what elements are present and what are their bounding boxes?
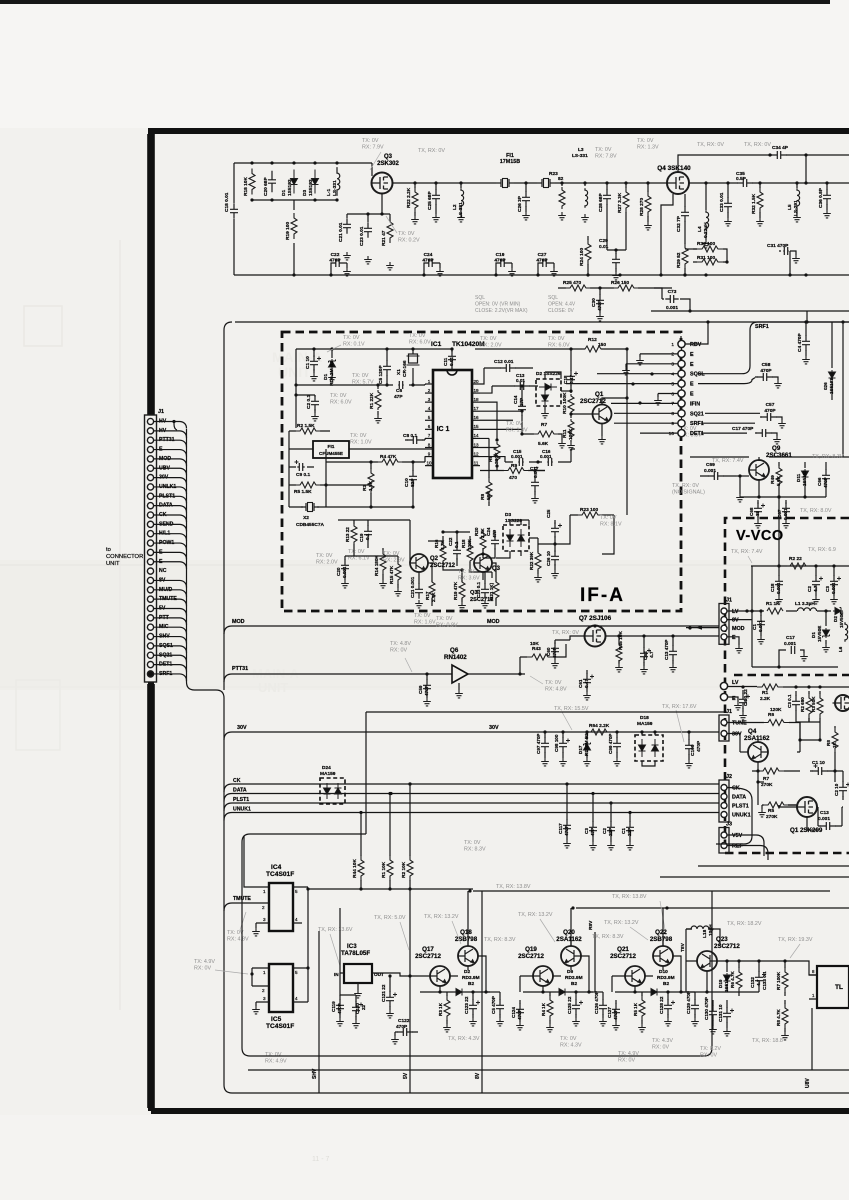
- svg-text:4: 4: [428, 406, 431, 411]
- capacitor C12 0.01: [480, 368, 533, 384]
- svg-text:TX: 0V: TX: 0V: [595, 147, 612, 153]
- wire rails btm: [319, 889, 482, 1093]
- resistor R22 2.2K: [413, 181, 416, 184]
- svg-text:TX: 0V: TX: 0V: [352, 373, 369, 379]
- capacitor C126 470P: [602, 992, 604, 1018]
- svg-text:2SA1162: 2SA1162: [744, 735, 770, 742]
- svg-text:RX: 1.0V: RX: 1.0V: [350, 439, 372, 445]
- wire CK line: [224, 784, 719, 792]
- svg-text:OPEN: 4.4V: OPEN: 4.4V: [548, 301, 576, 307]
- svg-text:TX: 0V: TX: 0V: [330, 393, 347, 399]
- svg-text:C125 22: C125 22: [567, 996, 572, 1014]
- connector J2 CK DATA PLST1 UNUK1: [719, 780, 729, 822]
- resistor R23 100 lower: [574, 514, 614, 516]
- svg-text:to: to: [106, 547, 111, 553]
- wire IC4 pin1 feed: [244, 836, 264, 887]
- svg-text:C28 68P: C28 68P: [598, 193, 604, 212]
- IC1 pin 1: [425, 383, 433, 385]
- svg-text:56K: 56K: [486, 491, 492, 500]
- capacitor C125 22: [575, 996, 577, 1018]
- wire Q4 second gate: [661, 194, 673, 275]
- svg-text:8V: 8V: [732, 618, 739, 624]
- svg-text:C9 0.1: C9 0.1: [296, 472, 310, 478]
- svg-text:14: 14: [473, 433, 479, 438]
- resistor R7 100K btm: [784, 965, 786, 996]
- svg-text:TX, RX: 7.4V: TX, RX: 7.4V: [712, 458, 744, 464]
- svg-text:TX: 0V: TX: 0V: [548, 336, 565, 342]
- wire pin1 rail: [296, 384, 425, 385]
- capacitor C130 470P: [712, 1000, 714, 1026]
- svg-text:2: 2: [428, 388, 431, 393]
- svg-text:R20: R20: [474, 527, 479, 536]
- svg-text:IC 1: IC 1: [437, 426, 450, 433]
- svg-text:TX, RX: 13.2V: TX, RX: 13.2V: [424, 914, 459, 920]
- svg-text:C133 0.1: C133 0.1: [762, 971, 767, 990]
- wire Q4 gate: [648, 182, 667, 184]
- svg-text:TX: 0V: TX: 0V: [362, 138, 379, 144]
- capacitor C5 120P: [386, 349, 388, 385]
- svg-text:J2: J2: [726, 774, 732, 780]
- terminal pin 6 E: [678, 390, 685, 397]
- svg-text:3: 3: [428, 397, 431, 402]
- svg-text:18: 18: [473, 397, 479, 402]
- svg-text:TX: 0V: TX: 0V: [600, 515, 617, 521]
- svg-text:X2: X2: [303, 515, 309, 521]
- capacitor C23 0.01: [364, 222, 372, 237]
- capacitor C68 33: [757, 500, 759, 520]
- svg-text:1K: 1K: [832, 741, 837, 748]
- capacitor C17 470P right: [755, 433, 777, 436]
- wire 30V line: [224, 732, 719, 740]
- svg-text:0.01: 0.01: [516, 378, 525, 383]
- svg-text:C8 0.1: C8 0.1: [403, 433, 417, 439]
- resistor R24 100: [587, 236, 589, 275]
- svg-text:1.5K: 1.5K: [368, 480, 374, 491]
- svg-text:15V50E: 15V50E: [839, 612, 844, 628]
- resistor R31 100: [693, 261, 727, 263]
- svg-text:IC5: IC5: [271, 1016, 282, 1023]
- transistor Q17 2SC2712: [430, 966, 450, 986]
- connector J1 pin UNLK1: [147, 484, 153, 490]
- svg-text:R7: R7: [763, 776, 769, 782]
- svg-text:C18: C18: [770, 583, 775, 592]
- wire bus 13.8 b: [571, 908, 849, 946]
- resistor R6 390K: [496, 440, 498, 466]
- svg-text:22P: 22P: [608, 828, 613, 836]
- svg-text:L-1: L-1: [326, 188, 332, 196]
- wire pin9 srf1 to caps: [701, 413, 760, 433]
- svg-text:R11: R11: [562, 429, 568, 438]
- capacitor C100 470P: [688, 732, 690, 760]
- resistor R20 2.7K lower: [482, 530, 484, 554]
- svg-text:5: 5: [428, 415, 431, 420]
- svg-text:LS-331: LS-331: [458, 202, 464, 218]
- svg-text:026: 026: [823, 382, 828, 390]
- svg-text:470P: 470P: [494, 258, 506, 264]
- svg-text:R25 470: R25 470: [563, 280, 581, 286]
- svg-text:DATA: DATA: [233, 788, 247, 794]
- svg-text:IC1: IC1: [431, 341, 442, 348]
- svg-text:R2 22: R2 22: [789, 556, 802, 562]
- connector J1 pin H/L1: [147, 531, 153, 537]
- svg-text:MA159: MA159: [320, 771, 336, 777]
- diode D3 1S5193: [312, 170, 319, 194]
- terminal pin 4 SQSL: [678, 370, 685, 377]
- svg-text:Q4: Q4: [748, 728, 757, 735]
- svg-text:TX, RX: 13.2V: TX, RX: 13.2V: [518, 912, 553, 918]
- svg-text:B2: B2: [571, 981, 577, 987]
- svg-text:C11: C11: [443, 357, 448, 366]
- svg-text:RX: 8.1V: RX: 8.1V: [600, 521, 622, 527]
- resistor R1 10K btm: [389, 794, 391, 890]
- svg-text:C21 0.01: C21 0.01: [338, 222, 344, 242]
- wire IF-A top rail: [296, 348, 627, 350]
- wire long y311: [651, 310, 849, 312]
- diode D1 1SV50E vco: [825, 611, 827, 644]
- svg-text:47P: 47P: [394, 394, 403, 400]
- svg-text:L4: L4: [697, 226, 703, 232]
- svg-text:RX: 0V: RX: 0V: [618, 1057, 635, 1063]
- svg-text:TX: 0V: TX: 0V: [637, 138, 654, 144]
- transistor FET right edge vco: [833, 695, 849, 711]
- IC1 pin 8: [425, 446, 433, 448]
- svg-text:TX, RX: 0V: TX, RX: 0V: [418, 148, 445, 154]
- svg-text:SQ21: SQ21: [690, 411, 704, 417]
- IC1 pin 18: [472, 401, 480, 403]
- svg-text:5V: 5V: [403, 1072, 409, 1079]
- svg-text:RX: 0.1V: RX: 0.1V: [343, 341, 365, 347]
- svg-text:OPEN: 0V (VR MIN): OPEN: 0V (VR MIN): [475, 301, 521, 307]
- svg-text:20: 20: [473, 379, 479, 384]
- svg-text:R64 2.2K: R64 2.2K: [589, 723, 610, 729]
- svg-text:RX: 3.6V: RX: 3.6V: [458, 575, 480, 581]
- svg-text:D17: D17: [578, 745, 583, 754]
- svg-text:C61: C61: [578, 679, 583, 688]
- capacitor C4 0.22 lower vco: [742, 690, 744, 712]
- wire IF-A left vertical: [295, 349, 297, 428]
- capacitor C122 470P: [395, 1031, 418, 1033]
- svg-text:0.001: 0.001: [342, 566, 347, 578]
- capacitor C1 0.001 vco: [760, 611, 762, 636]
- svg-text:R8 4.7K: R8 4.7K: [776, 1008, 781, 1026]
- wire J2 J3 loops: [716, 788, 752, 845]
- svg-text:Q18: Q18: [460, 929, 472, 936]
- svg-text:C25 68P: C25 68P: [427, 191, 433, 210]
- inductor L1 3.3uH vco: [797, 608, 816, 611]
- transistor Q4 3SK140: [667, 172, 689, 194]
- svg-text:C20 68P: C20 68P: [263, 177, 269, 196]
- capacitor C25 polarized lower: [554, 520, 556, 540]
- svg-text:C5 470P: C5 470P: [491, 996, 496, 1014]
- svg-text:L2: L2: [452, 204, 458, 210]
- svg-text:C122: C122: [398, 1018, 410, 1024]
- svg-text:E: E: [690, 352, 694, 358]
- svg-text:R32 1.5K: R32 1.5K: [751, 193, 757, 214]
- capacitor C117 470P: [566, 784, 568, 840]
- svg-text:RX: 5.7V: RX: 5.7V: [352, 379, 374, 385]
- svg-text:TX, RX: 18.8: TX, RX: 18.8: [752, 1038, 783, 1044]
- svg-text:C98 100: C98 100: [554, 734, 559, 752]
- svg-text:4: 4: [295, 996, 298, 1001]
- svg-text:30V: 30V: [489, 725, 499, 731]
- svg-text:5.6K: 5.6K: [538, 441, 549, 447]
- svg-text:RX: 6.0V: RX: 6.0V: [330, 399, 352, 405]
- IC U IC4 TC4S01F: [269, 883, 293, 931]
- svg-text:CONNECTOR: CONNECTOR: [106, 554, 143, 560]
- IC U IC1 TK10420M: [433, 370, 472, 478]
- svg-text:0.001: 0.001: [758, 620, 763, 632]
- svg-text:C3 0.1: C3 0.1: [787, 694, 792, 708]
- connector J1 pin NC: [147, 568, 153, 574]
- svg-text:R19 100: R19 100: [285, 222, 291, 240]
- wire PTT31 Q6 line: [224, 674, 452, 682]
- diode D3 1SS226 pair lower: [503, 525, 529, 551]
- resistor R19 47K lower: [461, 578, 463, 602]
- svg-text:9: 9: [671, 421, 674, 427]
- wire 8V stub: [727, 619, 752, 621]
- IC1 pin 17: [472, 410, 480, 412]
- diode D19 1S5193: [726, 965, 728, 992]
- resistor R45 10K: [618, 636, 620, 664]
- svg-text:C97 470P: C97 470P: [536, 734, 541, 754]
- wire Q1 collector: [602, 398, 627, 405]
- resistor R4 47K: [374, 461, 410, 463]
- resistor R13 22: [353, 520, 355, 548]
- diode D2 1SS226 pair: [536, 379, 561, 406]
- svg-text:TX, RX: 15.5V: TX, RX: 15.5V: [554, 706, 589, 712]
- capacitor C6 47P: [398, 381, 403, 389]
- svg-text:C21 0.001: C21 0.001: [410, 576, 415, 598]
- connector J1 pin UBV: [147, 465, 153, 471]
- wire enclosure loop left: [242, 834, 712, 1056]
- wires IF-A right of IC1: [480, 372, 575, 474]
- svg-text:Q6: Q6: [450, 647, 459, 654]
- capacitor C1 10 lower: [810, 770, 834, 772]
- svg-text:TX, RX: 8.3V: TX, RX: 8.3V: [484, 937, 516, 943]
- resistor R21 1K lower: [495, 578, 497, 602]
- capacitor C3 47P mid: [592, 794, 594, 843]
- resistor R5 1K: [641, 992, 643, 1024]
- svg-text:470P: 470P: [517, 1009, 522, 1020]
- svg-text:L5: L5: [787, 204, 793, 210]
- IC3 TA78L05F: [344, 964, 372, 983]
- svg-text:C26 3P: C26 3P: [517, 195, 523, 212]
- svg-text:C2 0.1: C2 0.1: [306, 395, 312, 409]
- resistor R32 1.5K: [759, 183, 761, 218]
- svg-text:C22: C22: [331, 252, 340, 258]
- svg-text:470P: 470P: [823, 477, 828, 488]
- svg-text:RX: 6.0V: RX: 6.0V: [548, 342, 570, 348]
- svg-text:R15 47K: R15 47K: [389, 565, 394, 584]
- resistor R8 56K: [488, 474, 490, 506]
- svg-text:C68: C68: [749, 507, 754, 516]
- svg-text:Q7 2SJ106: Q7 2SJ106: [579, 615, 612, 622]
- transistor Q3 2SK302: [371, 163, 373, 176]
- capacitor C69 0.001: [700, 475, 736, 477]
- capacitor C26 3P: [524, 181, 527, 184]
- transistor Q9 2SC3661: [749, 460, 769, 480]
- svg-text:SRF1: SRF1: [690, 421, 704, 427]
- svg-text:4.7: 4.7: [649, 651, 655, 658]
- svg-text:B2: B2: [663, 981, 669, 987]
- transistor Q3 2SC2712 lower: [474, 554, 493, 572]
- connector J1 pin E: [147, 446, 153, 452]
- svg-text:R19 47K: R19 47K: [453, 581, 458, 600]
- svg-text:CLOSE: 2.2V(VR MAX): CLOSE: 2.2V(VR MAX): [475, 308, 528, 314]
- wire Q4 top lead: [678, 155, 770, 172]
- svg-text:R2 1.5K: R2 1.5K: [297, 423, 315, 429]
- svg-text:Q1: Q1: [595, 391, 604, 398]
- capacitor C22 470P: [331, 263, 347, 275]
- connector J1 body: [145, 415, 157, 682]
- capacitor C20 0.001 lower: [344, 556, 346, 580]
- svg-text:2SC2712: 2SC2712: [518, 953, 544, 960]
- diode D26 1S5193: [831, 322, 833, 400]
- svg-text:1S5193: 1S5193: [308, 179, 314, 196]
- svg-text:9: 9: [428, 451, 431, 456]
- svg-text:C26 10: C26 10: [546, 551, 551, 566]
- svg-text:TX, RX: 6.9: TX, RX: 6.9: [808, 547, 836, 553]
- connector J1 pin 8V: [147, 577, 153, 583]
- svg-text:1S5193: 1S5193: [724, 976, 729, 992]
- wire vco feed vertical: [778, 497, 780, 566]
- wire long bottom vco: [660, 866, 849, 877]
- wires vco lower lattice: [758, 687, 843, 830]
- svg-text:IF-A: IF-A: [580, 585, 625, 606]
- svg-text:J1: J1: [158, 409, 164, 415]
- svg-text:470P: 470P: [329, 258, 341, 264]
- wire bottom loop second: [248, 1069, 849, 1071]
- svg-text:Q4 3SK140: Q4 3SK140: [657, 165, 691, 172]
- svg-text:13: 13: [473, 442, 479, 447]
- svg-text:TC4S01F: TC4S01F: [266, 871, 294, 878]
- svg-text:TX: 4.9V: TX: 4.9V: [194, 959, 215, 965]
- svg-text:J1: J1: [726, 709, 732, 715]
- transistor Q20 2SA1162: [561, 946, 581, 966]
- inductor L2 LS-331: [459, 181, 462, 184]
- svg-text:10: 10: [669, 431, 675, 437]
- top page edge strip: [0, 0, 830, 4]
- resistor R64 2.2K: [586, 729, 612, 735]
- capacitor C18 0.47: [570, 349, 572, 391]
- resistor R25 470: [558, 287, 600, 289]
- svg-text:C33 0.01: C33 0.01: [719, 192, 725, 212]
- resistor R2 680 lower vco: [808, 691, 810, 722]
- svg-text:C100: C100: [690, 744, 696, 756]
- connector J1 pin 30V: [147, 475, 153, 481]
- svg-text:6: 6: [428, 424, 431, 429]
- svg-text:0.001: 0.001: [784, 641, 796, 647]
- svg-text:1S5193: 1S5193: [802, 470, 807, 486]
- svg-text:RBV: RBV: [690, 342, 702, 348]
- transistor Q19 2SC2712: [533, 966, 553, 986]
- wire J1 E ground: [727, 637, 739, 645]
- svg-text:CR-166: CR-166: [402, 360, 408, 377]
- terminal pin 8 SQ21: [678, 410, 685, 417]
- wire amp chain bases: [520, 908, 663, 992]
- capacitor C20 68P: [268, 171, 276, 192]
- resistor R29 82: [684, 240, 686, 275]
- svg-text:C29: C29: [599, 238, 608, 244]
- svg-text:TX, RX: 19.3V: TX, RX: 19.3V: [778, 937, 813, 943]
- connector J1 pin CK: [147, 512, 153, 518]
- resistor R26 150: [600, 287, 672, 289]
- capacitor C14 27P: [521, 386, 523, 434]
- svg-text:LS-331: LS-331: [572, 153, 588, 159]
- svg-text:C23 0.01: C23 0.01: [359, 226, 365, 246]
- svg-text:SQL: SQL: [548, 295, 558, 301]
- svg-text:100K: 100K: [467, 538, 472, 550]
- resistor R12 150: [582, 346, 604, 352]
- svg-text:IC3: IC3: [347, 943, 357, 950]
- resistor R3 1.5K: [370, 465, 372, 497]
- resistor R3 1K: [446, 992, 448, 1024]
- svg-text:Q19: Q19: [525, 946, 537, 953]
- svg-text:D1: D1: [323, 374, 329, 380]
- wire DATA line: [224, 794, 719, 802]
- svg-text:0.47: 0.47: [569, 375, 574, 384]
- svg-text:D11: D11: [796, 473, 801, 482]
- wires pins left connections: [566, 354, 678, 433]
- svg-text:R1 10K: R1 10K: [381, 861, 387, 878]
- svg-text:0.001: 0.001: [704, 468, 716, 474]
- resistor R11 100K: [570, 418, 572, 442]
- capacitor C28 68P: [605, 181, 608, 184]
- wire Q1 base: [571, 413, 593, 415]
- wire tune wire: [727, 722, 764, 724]
- svg-text:D10: D10: [659, 969, 668, 975]
- svg-text:C130 470P: C130 470P: [704, 997, 709, 1020]
- svg-text:470P: 470P: [337, 1003, 342, 1014]
- svg-text:R3 1K: R3 1K: [438, 1002, 443, 1016]
- svg-text:RX: 0V: RX: 0V: [700, 1052, 717, 1058]
- IC U IC5 TC4S01F: [269, 964, 293, 1012]
- svg-text:1S5193: 1S5193: [287, 179, 293, 196]
- IC1 pin 9: [425, 456, 433, 458]
- svg-text:R6 4.7K: R6 4.7K: [730, 970, 735, 988]
- resistor R10 100K: [570, 391, 572, 418]
- svg-text:R29 82: R29 82: [676, 252, 682, 268]
- capacitor C2 10 lower: [842, 778, 844, 800]
- resistor R6 4.7K btm: [738, 965, 740, 996]
- V-VCO dashed enclosure: [725, 518, 849, 853]
- connector J1 bus wire: [187, 429, 849, 1093]
- capacitor C17 0.001 vco: [779, 650, 804, 667]
- diode D1 1S5193: [291, 170, 298, 194]
- svg-text:IC4: IC4: [271, 864, 282, 871]
- zener D17 R010M B2: [586, 732, 588, 758]
- connector J3 V5V REF: [719, 828, 729, 854]
- svg-text:J3: J3: [726, 822, 732, 828]
- svg-text:6: 6: [671, 391, 674, 397]
- svg-text:C18 0.01: C18 0.01: [224, 192, 230, 212]
- svg-text:0.001: 0.001: [666, 305, 678, 311]
- svg-text:D3: D3: [302, 190, 308, 196]
- capacitor C24 47P lower: [494, 530, 496, 554]
- capacitor C3 0.001 vco: [833, 566, 835, 596]
- connector J1 pin E: [147, 549, 153, 555]
- IC1 pin 7: [425, 437, 433, 439]
- svg-text:C123 22: C123 22: [464, 996, 469, 1014]
- svg-text:FI1: FI1: [328, 444, 335, 450]
- svg-text:C23 0.1: C23 0.1: [476, 581, 481, 598]
- svg-text:LS-331: LS-331: [332, 180, 338, 196]
- svg-text:C18: C18: [563, 375, 568, 384]
- svg-text:16: 16: [473, 415, 479, 420]
- resistor R8 1K: [834, 726, 836, 756]
- connector J1 pin SQ21: [147, 652, 153, 658]
- resistor R1 1K vco: [767, 608, 783, 614]
